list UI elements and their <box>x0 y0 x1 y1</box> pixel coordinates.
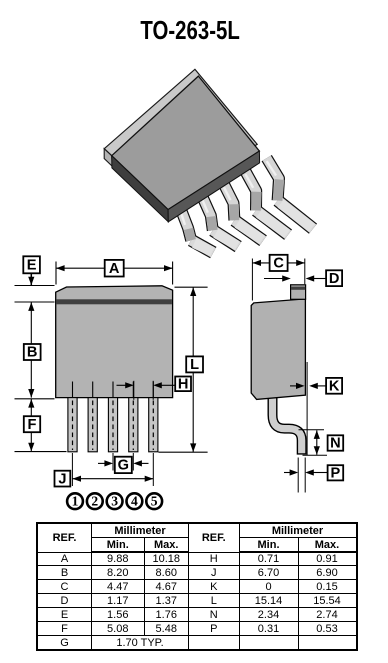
dimension C (body thickness) <box>251 259 253 301</box>
3D view: body left side face <box>112 156 169 222</box>
svg-text:J: J <box>58 471 66 487</box>
svg-text:L: L <box>190 357 199 373</box>
svg-text:B: B <box>27 345 38 361</box>
svg-text:G: G <box>118 458 129 474</box>
svg-text:3: 3 <box>111 493 118 508</box>
svg-text:5: 5 <box>151 493 158 508</box>
dimension G (lead pitch) <box>112 453 114 471</box>
svg-text:2: 2 <box>91 493 98 508</box>
dimension N (foot height) <box>299 429 325 431</box>
3D view: lead 4 <box>256 210 288 234</box>
extension line leads bottom left <box>15 451 67 453</box>
svg-text:E: E <box>27 257 37 273</box>
dimension E (tab exposure) <box>15 285 55 287</box>
side view: package body <box>251 299 305 400</box>
front view: lead 1 with centerline <box>68 398 77 452</box>
pin number 5 <box>146 493 162 509</box>
side view: tab top <box>291 285 306 300</box>
3D view: body front-right side face <box>168 151 260 222</box>
dimension L (overall length) <box>175 286 208 288</box>
front view: lead 4 with centerline <box>129 398 138 452</box>
3D view: lead 1 <box>191 240 213 252</box>
svg-text:A: A <box>109 261 120 277</box>
extension line body bottom left <box>15 398 55 400</box>
pin number 1 <box>67 493 83 509</box>
svg-text:4: 4 <box>131 493 138 508</box>
front view: lead 3 with centerline <box>108 398 117 452</box>
svg-text:C: C <box>273 256 284 272</box>
3D view: lead 3 <box>234 220 263 240</box>
pin number 2 <box>87 493 103 509</box>
svg-text:P: P <box>331 465 341 481</box>
svg-text:N: N <box>330 436 341 452</box>
dimension J (lead span) <box>71 453 73 486</box>
dimension D (tab thickness) <box>264 278 284 280</box>
dimension A (body width) <box>55 262 57 285</box>
svg-text:D: D <box>329 271 340 287</box>
dimension table <box>36 522 358 651</box>
3D view: package body top face <box>112 76 260 210</box>
dimension P (lead thickness) <box>297 458 299 493</box>
pin number 4 <box>126 493 142 509</box>
pin number 3 <box>107 493 123 509</box>
svg-text:K: K <box>329 378 340 394</box>
dimension F (lead length) <box>30 399 32 451</box>
title TO-263-5L <box>0 17 388 46</box>
front view: package body <box>56 286 173 398</box>
svg-text:F: F <box>28 417 37 433</box>
dimension H (lead width) <box>133 381 135 400</box>
front view: tab stripe <box>56 299 171 304</box>
side view: gull-wing lead <box>273 394 302 455</box>
dimension B (body height) <box>30 302 32 397</box>
3D view: lead 2 <box>213 230 238 246</box>
dimension K (standoff) <box>290 385 298 387</box>
front view: lead 5 with centerline <box>149 398 158 452</box>
front view: lead 2 with centerline <box>88 398 97 452</box>
svg-text:1: 1 <box>72 493 79 508</box>
3D view: lead 5 <box>278 201 313 229</box>
svg-text:H: H <box>178 376 189 392</box>
side view: seating plane line <box>306 362 308 456</box>
3D view: mounting tab plate <box>104 69 257 203</box>
